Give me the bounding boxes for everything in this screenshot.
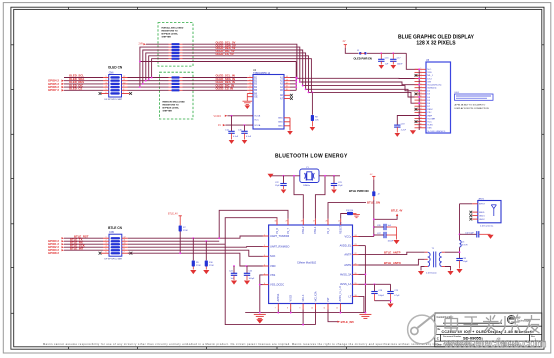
svg-text:10: 10 (286, 89, 288, 91)
svg-text:Maxim cannot assume responsibi: Maxim cannot assume responsibility for u… (43, 342, 440, 346)
transformer T1 balun (418, 248, 460, 275)
svg-text:6: 6 (421, 83, 422, 85)
svg-text:8: 8 (124, 249, 125, 251)
left pin stubs CN6 (101, 78, 109, 94)
svg-text:29: 29 (286, 221, 288, 223)
svg-text:OLED_CS: OLED_CS (69, 87, 82, 91)
capacitor C26 (373, 224, 397, 230)
svg-text:AVSS_FL_LD: AVSS_FL_LD (339, 286, 342, 302)
svg-text:6: 6 (264, 283, 265, 285)
svg-text:2: 2 (421, 71, 422, 73)
svg-text:2V8: 2V8 (139, 43, 144, 46)
svg-text:ANTN: ANTN (344, 263, 351, 267)
svg-text:4: 4 (106, 246, 107, 248)
svg-text:1.0pF: 1.0pF (463, 261, 469, 263)
svg-text:28: 28 (301, 221, 303, 223)
svg-text:10: 10 (420, 96, 422, 98)
svg-text:9: 9 (123, 86, 124, 88)
capacitor C22 (275, 176, 287, 189)
svg-text:VSS3: VSS3 (290, 294, 293, 301)
svg-text:OLED_CS_IN: OLED_CS_IN (216, 87, 234, 91)
svg-text:20: 20 (420, 127, 422, 129)
svg-text:BTLE_4V: BTLE_4V (168, 213, 178, 215)
svg-text:VSS_DCDC: VSS_DCDC (270, 283, 284, 287)
svg-text:4.7pF: 4.7pF (394, 295, 400, 297)
resistor R9 pulldown (192, 237, 202, 269)
svg-text:6: 6 (250, 92, 251, 94)
svg-text:VLSS: VLSS (427, 125, 433, 127)
svg-text:M-OLED GRAPHICS: M-OLED GRAPHICS (428, 130, 446, 133)
VCCB / VCCA power pins (254, 116, 261, 127)
svg-text:GPIO7 2: GPIO7 2 (48, 88, 59, 92)
svg-text:REMOVE ENCLOSED: REMOVE ENCLOSED (163, 102, 186, 104)
svg-text:BTLE_ANTN: BTLE_ANTN (384, 261, 401, 265)
capacitor C15 (238, 124, 252, 139)
svg-text:100nF: 100nF (397, 63, 403, 65)
svg-text:14: 14 (286, 76, 288, 78)
right pin stubs CN6 (122, 78, 130, 94)
ground at left lower pins (243, 94, 253, 105)
svg-text:100nF: 100nF (388, 241, 394, 243)
wire long mid rail from riser to U4 A bus (140, 61, 296, 63)
svg-text:1: 1 (106, 76, 107, 78)
svg-text:25: 25 (338, 221, 340, 223)
svg-text:OLED_CS_5V: OLED_CS_5V (216, 52, 234, 56)
svg-text:7: 7 (421, 86, 422, 88)
svg-text:1: 1 (106, 237, 107, 239)
left pin names (254, 77, 258, 98)
bus junction dots (418, 68, 420, 116)
svg-text:30: 30 (275, 221, 277, 223)
resistor R8 pulldown mid (311, 92, 319, 126)
bundle to module (128, 236, 263, 266)
module U2 CC2541 (269, 225, 353, 304)
svg-text:VCCA: VCCA (254, 124, 261, 127)
svg-text:P1_7: P1_7 (287, 228, 290, 234)
svg-text:4V: 4V (218, 124, 221, 127)
svg-text:MCLK2A: MCLK2A (314, 291, 317, 301)
antenna ANT1 (469, 198, 501, 228)
capacitor C27 (373, 232, 397, 243)
resistor R12 horizontal (347, 212, 353, 215)
svg-text:6: 6 (106, 92, 107, 94)
bundle to display with staircase (297, 78, 419, 103)
svg-text:4: 4 (264, 265, 265, 267)
svg-text:P1_2: P1_2 (327, 228, 330, 234)
RF vertical chain (460, 204, 473, 258)
svg-text:VCCx: VCCx (345, 234, 352, 238)
antenna symbol (491, 205, 496, 216)
svg-text:INPUT: INPUT (479, 204, 486, 206)
2V8 flag top (139, 43, 169, 46)
capacitor C17 (390, 52, 403, 65)
green dashed box 2 (remove enclosed resistors) (160, 72, 194, 119)
svg-text:3.9nH: 3.9nH (462, 245, 468, 247)
svg-text:DF 5P SPCL SMT: DF 5P SPCL SMT (105, 99, 123, 101)
svg-text:RESISTORS TO: RESISTORS TO (163, 105, 180, 107)
svg-text:RES#: RES# (427, 109, 433, 111)
svg-text:7: 7 (124, 252, 125, 254)
svg-text:12: 12 (123, 76, 125, 78)
svg-text:27: 27 (313, 221, 315, 223)
resistor array in box1 (172, 43, 180, 60)
svg-text:3: 3 (106, 82, 107, 84)
svg-text:6: 6 (106, 252, 107, 254)
capacitor C28 (371, 284, 384, 300)
svg-text:SCL(D0/SCLK): SCL(D0/SCLK) (427, 85, 441, 87)
logo (507, 316, 531, 324)
svg-text:AVSS_1A: AVSS_1A (340, 282, 352, 286)
svg-text:SHIFTER: SHIFTER (163, 111, 173, 113)
wire A pins to bus (290, 62, 296, 91)
svg-text:OE: OE (254, 97, 258, 99)
capacitor C29 (387, 284, 400, 300)
svg-text:LT: LT (348, 294, 351, 298)
connector CN6 OLED CN (105, 65, 123, 101)
svg-text:100pF: 100pF (249, 278, 255, 280)
no-connect marks CN6 (99, 92, 102, 95)
电 (445, 316, 458, 332)
svg-text:8: 8 (421, 90, 422, 92)
right A pins (284, 78, 290, 99)
svg-text:3: 3 (250, 83, 251, 85)
inductor L3 (460, 240, 462, 247)
svg-text:9: 9 (421, 93, 422, 95)
capacitor C16 (378, 52, 389, 65)
svg-text:15: 15 (420, 111, 422, 113)
svg-text:1: 1 (264, 235, 265, 237)
svg-text:VCCB: VCCB (254, 116, 261, 118)
svg-text:VSS: VSS (427, 128, 432, 130)
svg-text:7: 7 (275, 308, 276, 310)
pin numbers U5 (420, 68, 422, 129)
top pins (277, 219, 341, 225)
svg-text:SCK: SCK (270, 254, 276, 258)
svg-text:270K: 270K (196, 265, 201, 267)
svg-text:18: 18 (420, 120, 422, 122)
svg-text:270K: 270K (183, 230, 188, 232)
svg-text:4: 4 (250, 86, 251, 88)
svg-text:INSTALL ENCLOSED: INSTALL ENCLOSED (162, 27, 184, 30)
junction dots on riser joints (139, 61, 153, 88)
svg-text:5: 5 (106, 89, 107, 91)
watermark (408, 314, 547, 351)
svg-text:1: 1 (421, 68, 422, 70)
svg-text:16: 16 (420, 114, 422, 116)
pin numbers CN5 (106, 237, 126, 254)
ANTP wire (359, 252, 425, 265)
svg-text:13: 13 (286, 79, 288, 81)
svg-text:A PIN 4B BUY TO SOLDER TO: A PIN 4B BUY TO SOLDER TO (455, 104, 486, 107)
svg-text:GW: GW (427, 81, 431, 83)
pin numbers U4 (250, 76, 288, 94)
svg-text:26: 26 (326, 221, 328, 223)
svg-text:IREF: IREF (427, 115, 432, 117)
svg-text:BYPASS LEVEL: BYPASS LEVEL (163, 107, 180, 110)
svg-text:270K: 270K (209, 265, 214, 267)
svg-text:www.elecfans.com: www.elecfans.com (443, 336, 546, 350)
svg-text:CN6: CN6 (109, 71, 114, 74)
svg-text:BTLE_INT: BTLE_INT (70, 246, 84, 250)
net label BTLE_IN5 (338, 321, 341, 323)
svg-text:XTAL1: XTAL1 (314, 226, 317, 234)
capacitor C33 (456, 258, 468, 269)
svg-text:2.2uF: 2.2uF (401, 129, 407, 131)
svg-text:AVDD_EL: AVDD_EL (340, 244, 352, 248)
svg-text:12: 12 (336, 308, 338, 310)
svg-text:GND: GND (278, 118, 283, 120)
left wires + labels (64, 238, 103, 250)
ground below display bus (410, 130, 416, 134)
svg-text:N.C.: N.C. (427, 69, 432, 71)
svg-text:7: 7 (123, 92, 124, 94)
left wires to net flags (64, 78, 103, 91)
svg-text:VCC: VCC (427, 121, 432, 123)
svg-text:OLED PWR EN: OLED PWR EN (354, 57, 372, 61)
svg-text:14: 14 (420, 108, 422, 110)
svg-text:BTLE CN: BTLE CN (108, 226, 123, 230)
svg-text:VCCIO: VCCIO (214, 115, 222, 118)
wire down to VCC row (359, 200, 374, 237)
svg-text:ANTP: ANTP (344, 253, 351, 257)
svg-text:3: 3 (106, 243, 107, 245)
resistor R10 pulldown (205, 240, 215, 269)
svg-text:BLUETOOTH LOW ENERGY: BLUETOOTH LOW ENERGY (275, 154, 348, 160)
label LBL1 (455, 92, 494, 110)
net label BTLE_4V with stub (374, 216, 397, 219)
no-connect marks on unused rows (415, 74, 418, 77)
GPIO port flags left (48, 79, 59, 93)
svg-text:2: 2 (106, 79, 107, 81)
wires box2 to U4 with labels (183, 78, 248, 91)
AVDD vertical x365 (359, 246, 391, 313)
发 (483, 315, 499, 333)
svg-text:AVSS_3A: AVSS_3A (340, 272, 352, 276)
ground symbols (254, 314, 266, 318)
svg-text:8: 8 (123, 89, 124, 91)
module pin numbers (264, 221, 356, 310)
pin numbers CN6 (106, 76, 126, 94)
svg-text:5: 5 (106, 249, 107, 251)
svg-text:BTLE_ANTP: BTLE_ANTP (384, 251, 401, 255)
svg-text:VSS: VSS (270, 273, 275, 277)
svg-text:9: 9 (124, 246, 125, 248)
ground rail (245, 275, 365, 325)
right pins (353, 237, 359, 297)
svg-text:11: 11 (420, 99, 422, 101)
svg-text:12: 12 (420, 102, 422, 104)
svg-text:13: 13 (420, 105, 422, 107)
svg-text:CMeter Mod BLE: CMeter Mod BLE (297, 262, 317, 265)
svg-text:2.4G antenna: 2.4G antenna (480, 224, 494, 227)
svg-text:2: 2 (250, 79, 251, 81)
svg-text:GND1: GND1 (479, 215, 485, 217)
svg-text:2: 2 (264, 245, 265, 247)
resistor array in box2 (172, 76, 180, 91)
svg-text:2: 2 (106, 240, 107, 242)
svg-text:RESET_N: RESET_N (340, 222, 343, 234)
svg-text:10: 10 (123, 82, 125, 84)
left pins (263, 236, 269, 285)
svg-text:0.1uF: 0.1uF (246, 136, 252, 138)
svg-text:GPIO8 2: GPIO8 2 (48, 251, 59, 255)
svg-text:GND: GND (278, 122, 283, 124)
svg-text:10: 10 (124, 243, 126, 245)
svg-text:12: 12 (124, 237, 126, 239)
svg-text:128 X 32 PIXELS: 128 X 32 PIXELS (416, 41, 456, 47)
svg-text:12pF: 12pF (275, 185, 280, 187)
svg-text:12: 12 (286, 83, 288, 85)
svg-text:5: 5 (264, 273, 265, 275)
svg-text:OLED CN: OLED CN (108, 65, 123, 69)
ferrite bead J2 (372, 191, 375, 196)
svg-text:BYPASS LEVEL: BYPASS LEVEL (162, 33, 179, 36)
left B pins (247, 78, 253, 97)
svg-text:SDIN(D1): SDIN(D1) (427, 88, 436, 90)
capacitor C14 (225, 115, 239, 140)
bottom pins (278, 304, 340, 310)
section heading OLED (275, 35, 475, 194)
svg-text:0.1uF: 0.1uF (233, 136, 239, 138)
solder jumper OLED PWR EN (359, 52, 362, 55)
svg-text:DF 5P SPCL SMT: DF 5P SPCL SMT (105, 258, 123, 260)
wires CN6 to box2 resistors and nested risers to box1 (128, 47, 297, 90)
svg-text:VCC: VCC (254, 119, 259, 121)
net name labels left of CN6 (69, 74, 84, 91)
svg-text:12pF: 12pF (338, 185, 343, 187)
top pin 1 2 wires to verticals (219, 203, 366, 325)
svg-text:P1_6: P1_6 (276, 228, 279, 234)
pin stubs (472, 204, 478, 219)
svg-text:DISPLAY FOR P20 CONNECTION: DISPLAY FOR P20 CONNECTION (455, 107, 489, 110)
svg-text:VDD: VDD (270, 264, 276, 268)
wires box1 to right with labels (183, 44, 312, 92)
green dashed box 1 (install enclosed resistors) (158, 23, 193, 67)
svg-text:BTLE PWR ON: BTLE PWR ON (349, 189, 369, 193)
svg-text:RESISTORS TO: RESISTORS TO (162, 31, 179, 33)
svg-text:11: 11 (123, 79, 125, 81)
title block (435, 313, 542, 347)
svg-text:16MHz: 16MHz (303, 185, 310, 187)
svg-text:1: 1 (250, 76, 251, 78)
svg-text:GND: GND (278, 126, 283, 128)
svg-text:XTAL2: XTAL2 (302, 226, 305, 234)
grounds from balun (421, 252, 460, 270)
svg-text:R12 1M: R12 1M (346, 210, 353, 212)
svg-text:11: 11 (286, 86, 288, 88)
display pin stubs + bus (415, 69, 427, 128)
svg-text:5: 5 (250, 89, 251, 91)
VDD caps C24 C25 (229, 265, 255, 280)
wire VCOMH cap C18 (397, 116, 419, 125)
svg-text:BTLE_IN5: BTLE_IN5 (341, 320, 355, 324)
svg-text:SHIFTER: SHIFTER (162, 37, 172, 39)
烧 (500, 315, 521, 334)
svg-text:MCLK: MCLK (302, 294, 305, 301)
svg-text:VCOMH: VCOMH (427, 118, 435, 120)
svg-text:8: 8 (287, 308, 288, 310)
right GND pins of U4 (278, 118, 283, 128)
子 (464, 317, 479, 333)
svg-text:11: 11 (324, 308, 326, 310)
svg-text:UART_RX/MISO: UART_RX/MISO (270, 245, 289, 249)
svg-text:9: 9 (299, 308, 300, 310)
svg-text:BTLE_4V: BTLE_4V (391, 209, 403, 213)
stubs (101, 238, 130, 253)
svg-text:11: 11 (124, 240, 126, 242)
svg-text:VDD: VDD (427, 72, 432, 74)
svg-text:5: 5 (421, 80, 422, 82)
svg-text:17: 17 (420, 117, 422, 119)
svg-text:100pF: 100pF (378, 295, 384, 297)
svg-text:4: 4 (421, 77, 422, 79)
svg-text:3: 3 (264, 255, 265, 257)
shunt cap C32 to ground (460, 231, 491, 237)
resistor R7 pull-up with flag (168, 213, 188, 254)
svg-text:2.4G balun: 2.4G balun (426, 272, 437, 274)
友 (524, 315, 540, 333)
svg-text:INT: INT (327, 297, 330, 302)
svg-text:C32 10pF: C32 10pF (465, 232, 475, 234)
svg-text:10: 10 (311, 308, 313, 310)
svg-text:4V: 4V (343, 40, 346, 43)
svg-text:19: 19 (420, 123, 422, 125)
svg-text:4: 4 (106, 86, 107, 88)
svg-text:FEED: FEED (479, 212, 485, 214)
nested risers (140, 47, 169, 87)
crystal wiring (271, 176, 341, 219)
svg-text:3: 3 (421, 74, 422, 76)
svg-text:GND2: GND2 (479, 219, 485, 221)
capacitor C23 (331, 176, 344, 189)
svg-text:C: C (437, 337, 439, 341)
svg-text:AVSS1: AVSS1 (277, 293, 280, 301)
svg-text:NIL_1: NIL_1 (427, 75, 433, 77)
